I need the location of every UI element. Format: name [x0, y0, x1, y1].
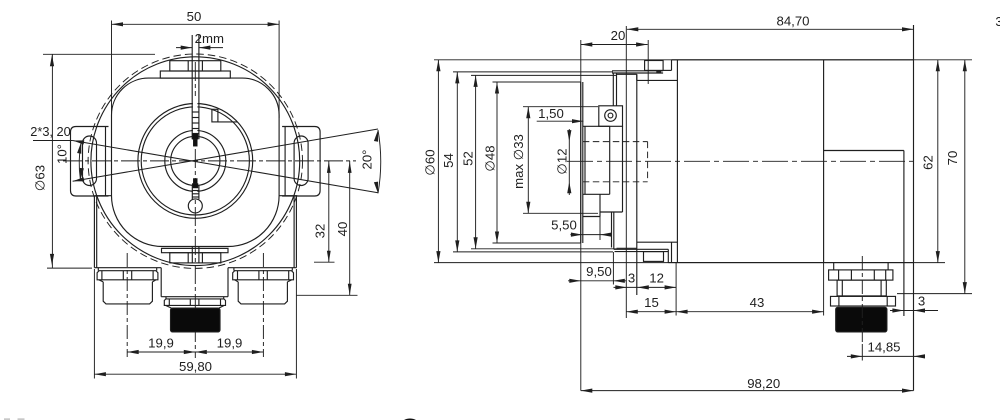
dim 54 arrow bottom — [455, 240, 459, 252]
bottom tab divider left — [187, 253, 189, 263]
slot dark fill top — [192, 134, 198, 140]
dim 62 arrow top — [936, 60, 940, 72]
arc 20deg top arrowhead — [374, 130, 378, 142]
dim max phi33 arrow top — [526, 107, 530, 119]
dim 98.20 arrow right — [902, 389, 914, 393]
keyway notch bottom — [193, 179, 197, 186]
svg-text:70: 70 — [945, 151, 960, 166]
dim phi63 ext bottom — [47, 267, 92, 269]
dim 3 rear arrow left — [892, 308, 904, 312]
bottom step line — [617, 247, 637, 249]
dim 20 line — [581, 44, 648, 46]
slot rung 2 — [192, 117, 199, 119]
dim phi48 ext bottom — [493, 242, 581, 244]
dim 15 arrow left — [626, 310, 638, 314]
dim 1.50 leader — [537, 120, 584, 122]
dim 52 ext bottom — [471, 248, 617, 250]
left ear inner line — [105, 127, 107, 197]
dim phi12 line — [568, 129, 570, 195]
dim 19.9 ext right / right connector centerline — [262, 253, 264, 357]
dim phi48 ext top — [493, 81, 581, 83]
rear connector centerline — [861, 256, 863, 344]
arc 20deg — [378, 130, 381, 193]
clipped bottom-left mark2 — [18, 418, 25, 420]
foot right end vertical — [667, 249, 669, 262]
dim 20 arrow left — [581, 42, 593, 46]
dim 59.80 line — [94, 373, 296, 375]
svg-text:5,50: 5,50 — [551, 218, 577, 233]
lower block right side outer — [295, 196, 297, 268]
left nut vertical 1 — [101, 271, 103, 280]
svg-text:3: 3 — [628, 270, 635, 285]
slot line right lower tab — [198, 247, 200, 263]
dim 9.50 ext — [612, 252, 614, 285]
center connector taper right — [219, 305, 225, 308]
dim 14.85 ext — [861, 344, 863, 361]
svg-text:20: 20 — [611, 28, 626, 43]
slot white underlay top — [193, 96, 198, 134]
dim 50 ext left — [111, 21, 113, 119]
dim phi12 arrow top — [567, 130, 571, 142]
body top line with extensions — [434, 59, 972, 61]
dim 20 ext right — [647, 40, 649, 84]
dim 59.80 arrow right — [285, 372, 297, 376]
nut facet 2 — [850, 270, 852, 280]
left connector barrel — [103, 282, 152, 304]
dim phi63 line — [51, 55, 53, 268]
dim max phi33 ext top — [523, 106, 598, 108]
top step line — [617, 73, 637, 75]
dim 54 line — [456, 72, 458, 252]
dim 98.20 line — [581, 390, 914, 392]
dim 52 line — [475, 75, 477, 248]
top step vertical — [636, 74, 638, 80]
slot rung 5 — [192, 133, 199, 135]
slot bottom rung 2 — [192, 193, 199, 195]
barrel inner left — [841, 280, 843, 296]
dim 19.9 ext left / left connector centerline — [126, 253, 128, 357]
dim 2mm arrow left — [181, 46, 193, 50]
bottom tab inner — [170, 253, 221, 263]
rear inner horizontal — [824, 150, 904, 152]
hub step edge — [600, 211, 623, 213]
dim 5.50 ext — [599, 217, 601, 241]
center connector black cap — [171, 308, 221, 332]
side centerline — [567, 160, 916, 162]
dim phi48 line — [496, 82, 498, 243]
lower block top-left edge — [94, 195, 111, 197]
bottom bar — [162, 248, 229, 252]
right connector neck left — [233, 268, 235, 271]
pilot face vertical — [636, 74, 638, 295]
slot rung 3 — [192, 122, 199, 124]
centerline horizontal (front view) — [63, 160, 356, 162]
body mid vertical — [823, 60, 825, 263]
dim 40 arrow top — [348, 161, 352, 173]
dim 3-12 line — [614, 286, 677, 288]
svg-text:32: 32 — [313, 224, 328, 239]
dim 19.9 arrow far-right — [252, 350, 264, 354]
tether bottom leg right — [613, 212, 615, 249]
nut facet 1 — [838, 270, 840, 280]
center block right side — [227, 268, 229, 297]
svg-text:59,80: 59,80 — [179, 359, 212, 374]
dim 15 arrow right — [665, 310, 677, 314]
dim phi60 arrow top — [436, 60, 440, 72]
left nut vertical 4 — [152, 271, 154, 280]
top pocket step — [663, 69, 671, 71]
right ear slot — [294, 136, 308, 186]
bottom tab divider right — [201, 253, 203, 263]
rear connector neck left — [833, 263, 835, 270]
tether top leg left — [612, 73, 614, 106]
center connector taper left — [166, 305, 172, 308]
dim 14.85 arrow right — [914, 354, 926, 358]
dim phi63 ext top — [43, 53, 155, 55]
rear face vertical — [913, 25, 915, 391]
dim 2mm line left — [176, 47, 192, 49]
spring detail line — [218, 121, 238, 123]
clipped bottom note glyph — [401, 419, 419, 420]
barrel inner right — [880, 280, 882, 296]
spring detail rect — [212, 109, 218, 122]
dim 59.80 arrow left — [94, 372, 106, 376]
hub rear vertical — [609, 126, 611, 194]
right connector barrel — [238, 282, 287, 304]
dim 32 arrow top — [327, 161, 331, 173]
dim 14.85 line — [847, 355, 925, 357]
body front face outer top segment — [671, 60, 673, 71]
svg-text:∅12: ∅12 — [554, 148, 569, 174]
right connector neck right — [291, 268, 293, 271]
dim 3 arrow left — [615, 285, 627, 289]
dim 9.50 arrow left — [569, 279, 581, 283]
svg-text:40: 40 — [335, 222, 350, 237]
svg-text:max ∅33: max ∅33 — [511, 134, 526, 189]
svg-text:14,85: 14,85 — [867, 340, 900, 355]
dim 5.50 line — [570, 234, 612, 236]
svg-text:52: 52 — [461, 151, 476, 166]
right connector taper left — [235, 280, 239, 282]
clamp rear vertical — [622, 126, 624, 212]
center ring vertical 4 — [220, 299, 222, 305]
collet screw inner circle — [608, 113, 613, 118]
left nut vertical 3 — [131, 271, 133, 280]
keyway notch top — [193, 139, 197, 146]
center block left side — [160, 268, 162, 297]
ring inner right — [886, 296, 888, 306]
dim phi60 line — [437, 60, 439, 263]
right nut vertical 2 — [258, 271, 260, 280]
dim 59.80 ext left — [93, 269, 95, 379]
dim 40 arrow bottom — [348, 284, 352, 296]
hub lower rear vertical — [599, 194, 601, 216]
bottom step lower line — [637, 241, 678, 243]
slot line left bottom — [191, 186, 193, 200]
hub bottom edge — [583, 193, 610, 195]
right nut vertical 4 — [288, 271, 290, 280]
svg-text:9,50: 9,50 — [586, 264, 612, 279]
dim 3 rear arrow right — [914, 308, 926, 312]
rear connector ring — [831, 296, 896, 306]
tether foot line2 — [615, 251, 669, 253]
center ring vertical 3 — [198, 299, 200, 306]
left connector nut — [97, 271, 158, 280]
tether plate top line1 — [612, 70, 663, 72]
dim 50 arrow right — [268, 22, 280, 26]
center connector ring — [164, 299, 225, 306]
dim 52 ext top — [471, 74, 617, 76]
body top edge — [672, 59, 914, 61]
collet screw outer circle — [605, 110, 617, 122]
angle line upper arrowhead — [73, 177, 85, 181]
rear connector nut — [829, 270, 893, 280]
tether foot line1 — [614, 248, 669, 250]
lower block top-right edge — [279, 195, 296, 197]
body squircle front face — [112, 78, 280, 246]
centerline vertical (front view) — [194, 62, 196, 358]
bottom plate bottom-left edge — [94, 267, 161, 269]
lower block left side outer — [93, 196, 95, 268]
dim 70 line — [964, 60, 966, 294]
tether bottom leg left — [611, 212, 613, 248]
dashed circle D63 housing — [88, 54, 302, 268]
shaft bore dashed end — [647, 142, 649, 182]
dim 9.50 line — [568, 280, 627, 282]
svg-text:2*3, 20: 2*3, 20 — [30, 124, 71, 139]
dim 40 ext — [296, 294, 358, 296]
slot bottom rung 3 — [192, 196, 199, 198]
angle line lower — [73, 141, 378, 193]
dim 15 line — [626, 311, 676, 313]
dim phi48 arrow bottom — [495, 232, 499, 244]
slot white underlay bottom — [193, 184, 198, 200]
left ear slot — [83, 136, 97, 186]
hub chamfer line — [584, 126, 586, 194]
dim phi12 arrow bottom — [567, 182, 571, 194]
body bottom line with extensions — [434, 262, 945, 264]
top step lower line — [637, 79, 678, 81]
svg-text:2mm: 2mm — [195, 31, 224, 46]
svg-text:∅63: ∅63 — [33, 165, 48, 191]
dim 20 arrow right — [636, 42, 648, 46]
dim 62 arrow bottom — [936, 251, 940, 263]
pilot step vertical long — [625, 26, 627, 318]
dim phi60 arrow bottom — [436, 251, 440, 263]
dim 3 rear line — [890, 310, 938, 312]
dim 2mm arrow right — [199, 46, 211, 50]
flange disk rear line — [582, 82, 584, 243]
left mounting ear — [71, 127, 109, 197]
dim max phi33 ext bottom — [523, 212, 598, 214]
rear connector black cap — [836, 307, 887, 332]
right nut vertical 1 — [237, 271, 239, 280]
center block bottom edge — [161, 296, 228, 298]
top tab outer — [160, 71, 230, 78]
dim 32 ext — [314, 261, 335, 263]
svg-text:84,70: 84,70 — [776, 14, 809, 29]
center connector neck left — [165, 297, 167, 299]
dim 32 arrow bottom — [327, 251, 331, 263]
dim 59.80 ext right — [295, 269, 297, 379]
svg-text:54: 54 — [441, 153, 456, 168]
dim 54 ext top — [453, 71, 613, 73]
arc 10deg — [79, 142, 81, 180]
tether plate screw mark — [657, 71, 662, 74]
svg-text:50: 50 — [187, 9, 202, 24]
center ring vertical 2 — [189, 299, 191, 306]
svg-text:∅60: ∅60 — [423, 149, 438, 175]
center connector neck right — [223, 297, 225, 299]
left connector taper right — [152, 280, 156, 282]
slot line right — [198, 35, 200, 139]
left nut vertical 2 — [122, 271, 124, 280]
dim 19.9 arrows center — [184, 350, 196, 354]
solid circle D63 body — [91, 57, 300, 266]
left connector neck left — [97, 268, 99, 271]
svg-text:12: 12 — [649, 270, 664, 285]
dim phi48 arrow top — [495, 82, 499, 94]
dim 52 arrow top — [474, 75, 478, 87]
dim 40 line — [349, 161, 351, 295]
dim 43 arrow right — [812, 310, 824, 314]
right connector nut — [233, 271, 294, 280]
dim 19.9 arrow far-left — [127, 350, 139, 354]
flange circle inner — [141, 107, 249, 215]
right connector taper right — [287, 280, 291, 282]
dim 19.9 line — [127, 351, 263, 353]
pin hole circle — [188, 199, 202, 213]
lower block left side inner — [96, 196, 98, 268]
hub top edge — [583, 125, 610, 127]
dim 14.85 arrow left — [851, 354, 863, 358]
dim 50 ext right — [278, 21, 280, 119]
right ear inner line — [284, 127, 286, 197]
dim 9.50 arrow right — [613, 279, 625, 283]
slot dark fill bottom — [192, 184, 198, 189]
left connector taper left — [99, 280, 103, 282]
dim 43 arrow left — [676, 310, 688, 314]
body front face inner — [676, 60, 678, 263]
dim 32 line — [328, 161, 330, 262]
rear connector barrel — [837, 280, 886, 296]
tether top leg right — [616, 73, 618, 106]
center ring vertical 1 — [168, 299, 170, 305]
svg-text:∅48: ∅48 — [483, 145, 498, 171]
slot rung 4 — [192, 128, 199, 130]
shaft bore dashed top — [583, 141, 648, 143]
label 2x3.20 underline — [33, 140, 73, 142]
flange face ext line — [580, 40, 582, 391]
dim max phi33 arrow bottom — [526, 202, 530, 214]
dim 5.50 arrow right — [600, 233, 612, 237]
tether plate top line2 — [612, 72, 663, 74]
dim 70 arrow top — [963, 60, 967, 72]
angle line upper — [73, 129, 378, 181]
svg-text:15: 15 — [644, 295, 659, 310]
dim 3 arrow right — [637, 285, 649, 289]
dim 5.50 arrow left — [571, 233, 583, 237]
dim 54 ext bottom — [453, 251, 613, 253]
top tab divider left — [187, 61, 189, 71]
svg-text:10°: 10° — [55, 144, 70, 164]
dim 98.20 arrow left — [581, 389, 593, 393]
left connector neck right — [156, 268, 158, 271]
clamp ring circle — [165, 130, 226, 191]
dim 2mm line right — [199, 47, 223, 49]
foot tab — [644, 252, 664, 262]
slot bottom rung 1 — [192, 190, 199, 192]
lower block right side inner — [293, 196, 295, 268]
slot rung 1 — [192, 111, 199, 113]
dim phi63 arrow top — [50, 55, 54, 67]
dim 43 line — [676, 311, 824, 313]
dim 62 line — [937, 60, 939, 263]
dim max phi33 line — [527, 107, 529, 214]
svg-text:19,9: 19,9 — [148, 336, 174, 351]
rear inner vertical — [903, 151, 905, 317]
dim 84.70 arrow right — [902, 27, 914, 31]
svg-text:1,50: 1,50 — [538, 106, 564, 121]
arc 10deg bottom arrowhead — [80, 168, 84, 180]
dim 84.70 arrow left — [627, 27, 639, 31]
shaft bore circle — [171, 136, 220, 185]
svg-text:43: 43 — [750, 295, 765, 310]
dim 43 ext — [823, 263, 825, 316]
dim phi63 arrow bottom — [50, 254, 54, 266]
dim 1.50 arrow — [572, 119, 584, 123]
svg-text:62: 62 — [921, 155, 936, 170]
right nut vertical 3 — [266, 271, 268, 280]
arc 10deg top arrowhead — [77, 142, 81, 154]
dim 50 line — [112, 23, 280, 25]
svg-text:19,9: 19,9 — [217, 336, 243, 351]
svg-text:20°: 20° — [360, 150, 375, 170]
body front face outer bottom segment — [671, 242, 673, 262]
top tab divider right — [201, 61, 203, 71]
dim 70 arrow bottom — [963, 282, 967, 294]
dim 12-15-43 ext — [675, 263, 677, 316]
flange disk front line — [580, 82, 582, 243]
dim 50 arrow left — [112, 22, 124, 26]
slot line left lower tab — [191, 247, 193, 263]
svg-text:3: 3 — [995, 14, 1000, 29]
rear connector neck right — [887, 263, 889, 270]
bottom plate bottom-right edge — [228, 267, 296, 269]
slot line right bottom — [198, 186, 200, 200]
clipped bottom-left mark1 — [4, 418, 10, 420]
arc 20deg bottom arrowhead — [374, 182, 378, 194]
ring inner left — [838, 296, 840, 306]
flange circle outer — [138, 103, 253, 218]
dim 70 ext — [897, 293, 972, 295]
dim 12 arrow right — [665, 285, 677, 289]
dim 52 arrow bottom — [474, 237, 478, 249]
nut facet 4 — [885, 270, 887, 280]
collet screw block — [599, 106, 623, 127]
slot line left — [191, 35, 193, 139]
svg-text:3: 3 — [918, 294, 925, 309]
nut facet 3 — [873, 270, 875, 280]
dim 54 arrow top — [455, 72, 459, 84]
dim 84.70 line — [627, 28, 914, 30]
right mounting ear — [282, 127, 320, 197]
shaft bore dashed bottom — [583, 181, 648, 183]
top tab inner — [170, 61, 221, 71]
svg-text:98,20: 98,20 — [747, 376, 780, 391]
hub lower bottom edge — [583, 216, 600, 218]
body bottom edge — [668, 262, 913, 264]
